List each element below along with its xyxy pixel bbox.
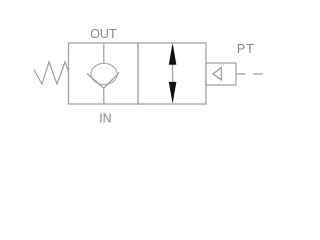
check valve seat: [87, 72, 119, 88]
arrow head up: [169, 43, 177, 65]
svg-text:PT: PT: [237, 42, 255, 56]
pilot dashed line: [236, 73, 246, 75]
flow arrow line: [172, 64, 174, 83]
valve body left cell: [69, 43, 139, 104]
wire check valve upper: [103, 43, 105, 64]
wire check valve lower: [103, 88, 105, 104]
pilot triangle: [213, 67, 221, 80]
valve body right cell: [138, 43, 206, 104]
spring: [34, 62, 69, 84]
svg-text:IN: IN: [99, 111, 112, 125]
svg-text:OUT: OUT: [90, 27, 117, 41]
pilot box: [206, 63, 236, 85]
check valve poppet ball: [91, 63, 117, 84]
arrow head down: [169, 82, 177, 104]
